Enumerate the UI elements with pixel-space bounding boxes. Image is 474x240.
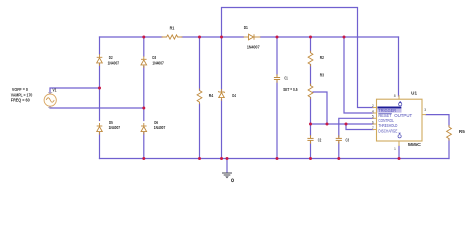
wire D4 column	[221, 37, 223, 91]
wire top rail y=7.5	[222, 8, 374, 108]
wire threshold junction row y=124	[311, 123, 374, 125]
wire V1 bottom	[50, 106, 144, 108]
svg-text:C3: C3	[346, 138, 350, 143]
resistor R2	[308, 51, 313, 67]
node ground 0 label	[231, 179, 233, 182]
svg-text:U1: U1	[411, 90, 417, 95]
wire VCC drop to pin8	[398, 37, 400, 96]
svg-text:8: 8	[394, 94, 396, 98]
svg-text:7: 7	[372, 126, 374, 130]
svg-text:555C: 555C	[408, 142, 421, 147]
wire chip gnd to rail	[398, 146, 400, 159]
svg-text:R2: R2	[320, 55, 325, 60]
pin numbers	[372, 94, 426, 151]
wire RESET branch	[344, 37, 374, 113]
capacitor C3	[336, 135, 342, 143]
wire V1 top	[50, 88, 100, 94]
svg-text:3: 3	[424, 108, 426, 112]
resistor R5	[447, 125, 452, 141]
diode D2	[97, 54, 103, 66]
op chip U1 555	[373, 95, 427, 146]
diode D3	[141, 56, 147, 68]
svg-text:R1: R1	[170, 25, 175, 30]
svg-text:1N4007: 1N4007	[154, 125, 166, 130]
svg-text:V1: V1	[53, 87, 57, 92]
diode D5	[97, 123, 103, 135]
wire R4 column	[199, 37, 201, 90]
svg-text:4: 4	[372, 109, 374, 113]
node V1 plus	[98, 87, 101, 90]
capacitor C2	[307, 135, 313, 143]
svg-text:D3: D3	[152, 55, 156, 60]
node rail junctions	[142, 36, 145, 39]
svg-text:1N4007: 1N4007	[247, 45, 260, 50]
wire discharge branch	[346, 124, 374, 130]
node VCC glyph	[399, 101, 402, 106]
node GND glyph	[398, 133, 401, 138]
svg-text:R5: R5	[459, 129, 466, 134]
svg-text:DISCHARGE: DISCHARGE	[378, 128, 397, 133]
resistor R1	[162, 35, 183, 39]
wire bridge left column upper (D2)	[99, 37, 101, 54]
svg-text:D2: D2	[109, 55, 113, 60]
wire ground stem	[226, 159, 228, 173]
wire C1 column	[276, 37, 278, 75]
svg-text:1N4007: 1N4007	[108, 60, 120, 65]
svg-text:R3: R3	[320, 72, 325, 77]
wire C3 bottom	[338, 142, 340, 159]
wire control to C3	[339, 118, 374, 137]
svg-text:2: 2	[372, 104, 374, 108]
diode D6	[141, 123, 147, 135]
diode D1	[244, 34, 261, 40]
wire main rail y=37	[100, 36, 163, 38]
svg-text:6: 6	[372, 120, 374, 124]
node TRIGGER pin 2	[377, 106, 401, 112]
svg-text:SET = 0.5: SET = 0.5	[283, 87, 298, 92]
node V1 minus	[142, 107, 145, 110]
ground 0	[222, 173, 232, 175]
svg-text:C2: C2	[318, 138, 322, 143]
resistor R3	[308, 84, 313, 100]
wire R2/R3 column	[310, 37, 312, 52]
node threshold row	[309, 123, 312, 126]
svg-text:1: 1	[394, 147, 396, 151]
wire bridge right column (D3/D6)	[143, 37, 145, 56]
source V1	[44, 93, 56, 108]
resistor R4	[197, 89, 202, 105]
svg-text:R4: R4	[209, 93, 214, 98]
wire bottom rail	[100, 158, 450, 160]
svg-text:1N4007: 1N4007	[152, 60, 164, 65]
svg-text:5: 5	[372, 115, 374, 119]
svg-text:C1: C1	[284, 76, 288, 81]
wire R5 bottom	[448, 139, 450, 159]
wire output to R5	[426, 115, 449, 126]
svg-text:1N4007: 1N4007	[109, 125, 121, 130]
diode D4 zener	[218, 89, 225, 101]
wire R3 side branch	[313, 92, 327, 124]
svg-text:FREQ = 60: FREQ = 60	[11, 97, 30, 102]
wire C2 column	[310, 124, 312, 136]
node RESET pin 4	[378, 112, 392, 114]
svg-text:D4: D4	[232, 93, 236, 98]
svg-text:D1: D1	[244, 25, 249, 30]
wire bridge left column lower (D5)	[99, 133, 101, 159]
svg-text:OUTPUT: OUTPUT	[394, 113, 412, 118]
capacitor C1	[274, 74, 280, 82]
node bottom rail	[142, 157, 145, 160]
